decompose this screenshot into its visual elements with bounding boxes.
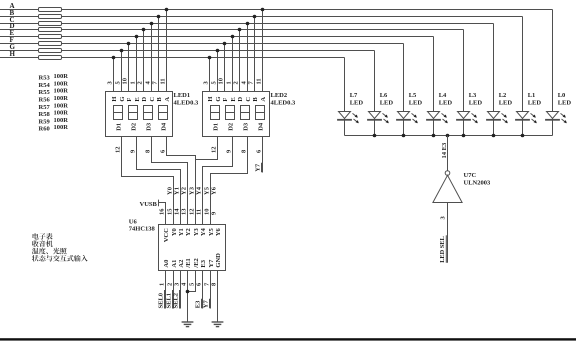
svg-text:LED SEL: LED SEL <box>439 236 446 263</box>
svg-text:Y0: Y0 <box>167 187 174 195</box>
svg-text:R60: R60 <box>39 126 50 133</box>
svg-text:LED1: LED1 <box>174 92 191 99</box>
svg-text:1: 1 <box>226 81 233 84</box>
svg-text:LED: LED <box>528 100 542 107</box>
svg-text:D: D <box>237 97 244 102</box>
svg-text:VCC: VCC <box>163 228 170 242</box>
svg-text:Y2: Y2 <box>185 228 192 236</box>
svg-text:11: 11 <box>196 209 203 215</box>
svg-text:Y6: Y6 <box>215 227 222 236</box>
svg-text:E3: E3 <box>200 259 207 267</box>
svg-text:R56: R56 <box>39 97 51 104</box>
svg-text:LED: LED <box>499 100 513 107</box>
svg-text:11: 11 <box>256 78 263 84</box>
svg-text:2: 2 <box>167 283 174 286</box>
svg-text:D2: D2 <box>228 123 235 131</box>
svg-text:L5: L5 <box>409 92 417 99</box>
svg-text:R59: R59 <box>39 118 51 125</box>
svg-text:LED: LED <box>350 100 364 107</box>
svg-text:Y7: Y7 <box>208 259 215 268</box>
svg-text:2: 2 <box>233 81 240 84</box>
svg-text:B: B <box>252 97 259 102</box>
svg-text:LED: LED <box>409 100 423 107</box>
svg-text:SEL1: SEL1 <box>165 293 172 309</box>
svg-text:16: 16 <box>159 208 166 215</box>
svg-text:A0: A0 <box>163 260 170 268</box>
svg-text:SEL0: SEL0 <box>157 293 164 309</box>
svg-text:100R: 100R <box>54 124 69 131</box>
svg-text:H: H <box>111 97 118 102</box>
svg-text:12: 12 <box>189 209 196 216</box>
svg-text:L0: L0 <box>558 92 566 99</box>
svg-text:100R: 100R <box>54 110 69 117</box>
svg-text:LED: LED <box>558 100 572 107</box>
svg-text:R54: R54 <box>39 82 51 89</box>
svg-text:D3: D3 <box>243 122 250 131</box>
svg-text:Y1: Y1 <box>174 187 181 195</box>
svg-text:G: G <box>119 97 126 102</box>
svg-text:Y3: Y3 <box>189 186 196 195</box>
svg-text:10: 10 <box>122 78 129 85</box>
svg-text:14: 14 <box>174 208 181 215</box>
svg-text:R55: R55 <box>39 89 51 96</box>
svg-text:L1: L1 <box>528 92 536 99</box>
svg-text:LED: LED <box>439 100 453 107</box>
svg-text:LED: LED <box>469 100 483 107</box>
svg-text:100R: 100R <box>54 88 69 95</box>
svg-text:Y5: Y5 <box>208 227 215 236</box>
svg-text:E: E <box>230 97 237 101</box>
svg-text:12: 12 <box>211 147 218 154</box>
svg-text:D1: D1 <box>116 123 123 131</box>
svg-text:D1: D1 <box>213 123 220 131</box>
svg-text:Y6: Y6 <box>211 186 218 195</box>
svg-text:100R: 100R <box>54 80 69 87</box>
svg-text:12: 12 <box>115 147 122 154</box>
svg-text:H: H <box>207 97 214 102</box>
svg-text:100R: 100R <box>54 102 69 109</box>
svg-text:14 E3: 14 E3 <box>441 142 448 158</box>
svg-text:74HC138: 74HC138 <box>129 226 156 233</box>
svg-text:A: A <box>260 97 267 102</box>
svg-text:4LED0.3: 4LED0.3 <box>271 100 296 107</box>
svg-text:10: 10 <box>204 209 211 216</box>
svg-text:Y0: Y0 <box>171 228 178 236</box>
svg-text:100R: 100R <box>54 95 69 102</box>
svg-text:Y5: Y5 <box>204 186 211 195</box>
svg-text:D2: D2 <box>131 123 138 131</box>
svg-text:A: A <box>164 97 171 102</box>
svg-text:15: 15 <box>167 208 174 215</box>
svg-text:LED: LED <box>380 100 394 107</box>
svg-text:GND: GND <box>215 253 222 268</box>
svg-text:Y1: Y1 <box>178 228 185 236</box>
svg-text:E3: E3 <box>194 300 201 308</box>
svg-text:F: F <box>222 98 229 102</box>
svg-text:Y4: Y4 <box>200 227 207 236</box>
svg-text:2: 2 <box>137 81 144 84</box>
svg-text:SEL2: SEL2 <box>172 293 179 309</box>
svg-text:C: C <box>149 97 156 102</box>
svg-text:G: G <box>215 97 222 102</box>
svg-text:100R: 100R <box>54 73 69 80</box>
svg-text:4LED0.3: 4LED0.3 <box>174 100 199 107</box>
svg-text:1: 1 <box>159 283 166 286</box>
svg-text:Y7: Y7 <box>254 163 261 172</box>
svg-text:LED2: LED2 <box>271 92 288 99</box>
svg-text:Y2: Y2 <box>181 187 188 195</box>
svg-text:B: B <box>156 97 163 102</box>
svg-text:U6: U6 <box>129 219 138 226</box>
svg-text:U7C: U7C <box>464 172 477 179</box>
svg-text:D: D <box>141 97 148 102</box>
svg-text:H: H <box>10 50 16 58</box>
svg-text:R53: R53 <box>39 75 51 82</box>
svg-text:1: 1 <box>130 81 137 84</box>
svg-text:Y3: Y3 <box>193 227 200 236</box>
svg-text:VUSB: VUSB <box>140 201 158 208</box>
svg-text:/E2: /E2 <box>193 258 200 268</box>
svg-text:ULN2003: ULN2003 <box>464 180 491 187</box>
svg-text:L3: L3 <box>469 92 477 99</box>
svg-text:100R: 100R <box>54 117 69 124</box>
svg-text:R57: R57 <box>39 104 51 111</box>
svg-text:A2: A2 <box>178 260 185 268</box>
svg-text:F: F <box>126 98 133 102</box>
svg-text:Y7: Y7 <box>202 300 209 309</box>
svg-text:10: 10 <box>218 78 225 85</box>
svg-text:13: 13 <box>181 208 188 215</box>
svg-text:L7: L7 <box>350 92 358 99</box>
svg-text:D3: D3 <box>146 122 153 131</box>
svg-text:A1: A1 <box>171 260 178 268</box>
svg-text:D4: D4 <box>161 122 168 131</box>
svg-text:11: 11 <box>160 78 167 84</box>
svg-text:L4: L4 <box>439 92 447 99</box>
svg-text:C: C <box>245 97 252 102</box>
svg-text:Y4: Y4 <box>196 186 203 195</box>
svg-text:D4: D4 <box>258 122 265 131</box>
svg-text:L2: L2 <box>499 92 507 99</box>
svg-text:L6: L6 <box>380 92 388 99</box>
svg-text:/E1: /E1 <box>185 258 192 268</box>
svg-text:E: E <box>134 97 141 101</box>
svg-text:R58: R58 <box>39 111 51 118</box>
